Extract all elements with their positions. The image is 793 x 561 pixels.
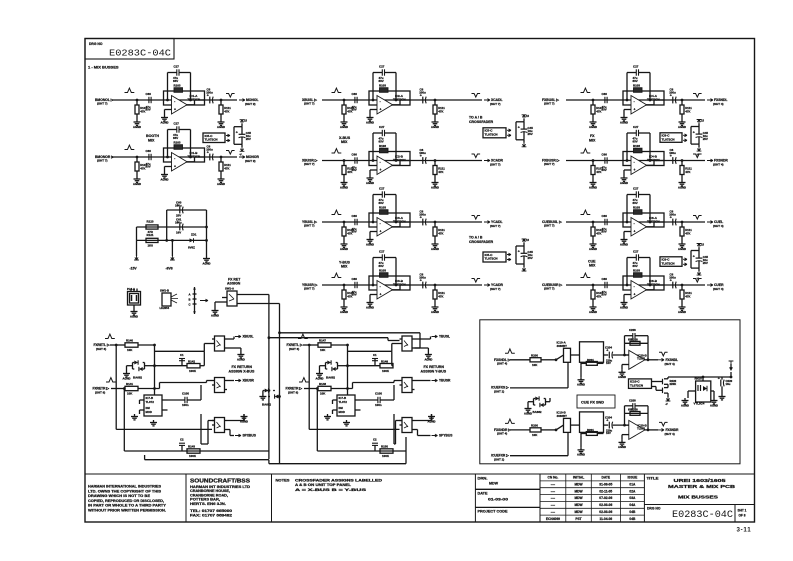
- svg-text:AGND: AGND: [577, 383, 585, 387]
- capacitor cueA Cout: [605, 345, 613, 365]
- node input FXSNDL: [494, 358, 511, 366]
- switch IC10-B: [556, 411, 571, 433]
- wire mute cap: [698, 251, 700, 269]
- wire out SPYBUS: [415, 430, 431, 436]
- wire power left drop: [136, 227, 138, 256]
- resistor R147: [318, 339, 331, 353]
- wire clamp junction: [338, 345, 349, 395]
- wire /CUEFXS: [510, 387, 568, 389]
- wire servo gnd stub: [332, 400, 334, 414]
- power -15V crossfader: [522, 264, 527, 271]
- wire bus drop A: [268, 298, 270, 460]
- svg-text:TO A / B: TO A / B: [469, 115, 483, 119]
- svg-text:C1: C1: [373, 353, 377, 357]
- svg-text:04B: 04B: [629, 517, 636, 521]
- svg-text:TL072: TL072: [637, 357, 646, 361]
- resistor R111 M1: [433, 100, 445, 120]
- svg-text:4066BT: 4066BT: [557, 414, 568, 418]
- waveform symbol M1: [332, 88, 342, 92]
- svg-text:VTL5C4: VTL5C4: [694, 402, 705, 406]
- wire crossfader bracket: [516, 122, 524, 140]
- ground L1 G3: [217, 120, 225, 129]
- resistor R111 M2: [433, 161, 445, 181]
- wire L1 main: [112, 99, 237, 101]
- capacitor C66 M1: [352, 92, 358, 112]
- svg-text:MDW: MDW: [574, 510, 583, 514]
- node TO A/B CROSSFADER: [469, 115, 494, 124]
- svg-text:BA682: BA682: [533, 410, 542, 414]
- svg-text:MDW: MDW: [574, 496, 583, 500]
- capacitor C8 M3: [419, 210, 426, 226]
- resistor R107 M1: [342, 100, 355, 120]
- svg-text:100u: 100u: [419, 91, 426, 95]
- node R3 J2: [681, 221, 684, 224]
- op-amp IC10-C: [629, 379, 652, 389]
- svg-text:47K: 47K: [685, 294, 691, 298]
- svg-text:02-03-06: 02-03-06: [599, 510, 612, 514]
- ground M1 G2: [366, 115, 374, 124]
- ground sw SW3-A: [415, 348, 433, 361]
- resistor R111 M3: [433, 222, 445, 242]
- svg-text:(SHT 6): (SHT 6): [288, 390, 298, 394]
- wire crossfader bracket: [516, 246, 524, 264]
- svg-text:AGND: AGND: [133, 125, 141, 129]
- ground R4 G1: [589, 305, 597, 314]
- ground L1 G1: [133, 120, 141, 129]
- wire mute bracket: [691, 127, 699, 145]
- svg-text:BA682: BA682: [133, 376, 142, 380]
- svg-text:(SHT 7): (SHT 7): [490, 287, 501, 291]
- wire sw3 feed: [201, 414, 215, 444]
- wire R2 +in to ground: [624, 170, 631, 176]
- svg-text:AGND: AGND: [620, 120, 628, 124]
- wire out SPXBUS: [227, 430, 234, 436]
- node R1 input label: [542, 98, 559, 106]
- wire sht box: [734, 505, 736, 523]
- svg-text:C66: C66: [352, 92, 358, 96]
- switch IC10-A: [556, 341, 571, 363]
- capacitor cueB Cfb: [625, 398, 649, 413]
- svg-text:R103: R103: [379, 205, 386, 209]
- svg-text:R103: R103: [379, 268, 386, 272]
- svg-text:AGND: AGND: [217, 182, 225, 186]
- svg-text:(SHT 7): (SHT 7): [490, 102, 501, 106]
- resistor cueB Rfb: [630, 407, 640, 415]
- wire lower rail 3: [269, 437, 406, 464]
- waveform symbol FXRETL: [105, 334, 115, 338]
- wire power mid drop: [171, 239, 174, 256]
- waveform symbol out M4: [472, 279, 481, 283]
- svg-text:CUE FX SND: CUE FX SND: [581, 401, 604, 405]
- svg-text:AGND: AGND: [589, 247, 597, 251]
- svg-text:C100: C100: [182, 392, 189, 396]
- svg-text:ISSUE: ISSUE: [628, 476, 639, 480]
- waveform symbol out M1: [472, 94, 481, 98]
- svg-text:AGND: AGND: [316, 376, 324, 380]
- capacitor low C: [179, 438, 185, 446]
- op-amp IC9-C mute driver: [660, 257, 682, 267]
- svg-text:+: +: [174, 108, 176, 112]
- wire cue rail top: [668, 377, 731, 388]
- ground R2 G3: [678, 180, 686, 189]
- svg-text:100u: 100u: [419, 276, 426, 280]
- node R1 output label: [707, 98, 727, 106]
- diode D20: [729, 361, 734, 378]
- svg-text:47K: 47K: [685, 231, 691, 235]
- svg-text:ASSIGN Y-BUS: ASSIGN Y-BUS: [421, 370, 447, 374]
- node M4 J1: [343, 284, 346, 287]
- svg-text:AGND: AGND: [240, 419, 248, 423]
- svg-text:-V: -V: [665, 402, 668, 406]
- wire title block divider: [539, 474, 541, 522]
- waveform symbol M3: [332, 210, 342, 214]
- node M4 output label: [484, 283, 504, 291]
- svg-text:C66: C66: [602, 277, 608, 281]
- svg-text:ECN4099: ECN4099: [546, 517, 560, 521]
- capacitor C27 feedback M2: [379, 125, 389, 144]
- svg-text:DRG NO: DRG NO: [89, 42, 103, 46]
- svg-text:C66: C66: [602, 214, 608, 218]
- waveform symbol R2: [581, 149, 591, 153]
- svg-text:SW1-B: SW1-B: [160, 289, 169, 293]
- svg-text:C66: C66: [352, 152, 358, 156]
- node cn table text: [546, 476, 638, 521]
- ground M1 G1: [340, 120, 348, 129]
- op-amp IC2-A M1: [369, 91, 410, 114]
- wire R3 feedback loop: [626, 195, 652, 224]
- wire M1 feedback loop: [372, 73, 398, 102]
- power +15V crossfader: [522, 114, 530, 122]
- svg-text:(SHT 7): (SHT 7): [97, 159, 108, 163]
- svg-text:C208: C208: [629, 398, 636, 402]
- svg-text:(SHT 4): (SHT 4): [665, 432, 675, 436]
- svg-text:DM: DM: [146, 406, 151, 410]
- svg-text:AGND: AGND: [431, 185, 439, 189]
- svg-text:15: 15: [244, 119, 247, 123]
- waveform symbol out R1: [693, 94, 702, 98]
- svg-text:AGND: AGND: [123, 376, 131, 380]
- node R2 output label: [707, 159, 728, 167]
- resistor cueB Rs: [581, 428, 604, 436]
- wire M3 main: [322, 221, 482, 223]
- node R4 J2: [681, 284, 684, 287]
- svg-text:A = X-BUS B = Y-BUS: A = X-BUS B = Y-BUS: [295, 488, 368, 492]
- wire clamp: [320, 366, 326, 371]
- svg-text:HARMAN INTERNATIONAL INDUSTRIE: HARMAN INTERNATIONAL INDUSTRIES: [88, 485, 162, 489]
- svg-text:C27: C27: [379, 125, 385, 129]
- svg-text:NOTES: NOTES: [276, 479, 291, 483]
- svg-text:TL072: TL072: [146, 400, 155, 404]
- wire SW1-A out lower: [237, 303, 280, 305]
- svg-text:----: ----: [551, 510, 555, 514]
- svg-text:+: +: [634, 108, 636, 112]
- svg-text:(SHT 4): (SHT 4): [713, 287, 724, 291]
- node R3 output label: [707, 220, 724, 228]
- transistor Q10: [660, 379, 669, 385]
- resistor R107 M4: [342, 285, 355, 305]
- svg-text:(SHT 4): (SHT 4): [713, 102, 724, 106]
- capacitor C66 R1: [602, 92, 608, 112]
- capacitor C66 M4: [352, 277, 358, 297]
- node title text: [647, 477, 736, 500]
- svg-text:+: +: [380, 108, 382, 112]
- svg-text:10K: 10K: [532, 433, 538, 437]
- node L1 input label: [95, 98, 114, 106]
- power +15V mute: [240, 119, 248, 127]
- capacitor C220: [718, 377, 733, 390]
- capacitor servo C: [182, 392, 189, 408]
- svg-text:63V: 63V: [352, 168, 357, 172]
- svg-text:63V: 63V: [602, 293, 607, 297]
- node R1 J1: [592, 99, 595, 102]
- ground L2 G3: [217, 177, 225, 186]
- svg-text:----: ----: [551, 483, 555, 487]
- svg-text:(SHT 4): (SHT 4): [497, 362, 507, 366]
- switch SW1-A: [215, 287, 237, 307]
- wire cn row: [540, 494, 644, 496]
- wire M2 feedback loop: [372, 133, 398, 162]
- wire crossfader cap: [523, 122, 525, 140]
- power -15V mute: [696, 268, 701, 280]
- wire left drop 2: [316, 387, 319, 451]
- wire power right drop: [205, 210, 208, 256]
- node R4 output label: [707, 283, 724, 291]
- resistor R111 M4: [433, 285, 445, 305]
- capacitor C66 L2: [146, 149, 152, 169]
- svg-text:3-11: 3-11: [737, 527, 752, 534]
- svg-text:04A: 04A: [629, 503, 636, 507]
- capacitor mid C: [372, 353, 378, 361]
- node input FXSNDR: [494, 428, 511, 436]
- resistor R111 R1: [680, 100, 692, 120]
- node input FXRETL: [287, 343, 303, 351]
- node drn block: [478, 477, 509, 514]
- svg-text:C66: C66: [602, 92, 608, 96]
- svg-text:DATE: DATE: [601, 476, 610, 480]
- waveform symbol out R2: [693, 154, 702, 158]
- resistor R141: [125, 382, 138, 396]
- svg-text:DRG NO: DRG NO: [647, 507, 661, 511]
- op-amp IC3-B M4: [369, 276, 410, 299]
- node FX RET ASSIGN label: [227, 278, 241, 286]
- svg-text:MIX: MIX: [589, 138, 596, 142]
- svg-text:OF 8: OF 8: [739, 514, 746, 518]
- wire R3 main: [566, 221, 705, 223]
- op-amp IC7 servo: [140, 395, 168, 416]
- svg-text:R103: R103: [633, 205, 640, 209]
- node R4 input label: [542, 283, 563, 291]
- node input FXRETR: [93, 387, 110, 395]
- resistor R107 R4: [591, 285, 604, 305]
- svg-text:R120: R120: [147, 220, 154, 224]
- capacitor C8 M4: [419, 273, 426, 289]
- resistor R121: [146, 233, 158, 248]
- svg-text:ASSIGN X-BUS: ASSIGN X-BUS: [229, 370, 255, 374]
- wire cueB gnd drop: [580, 435, 582, 447]
- svg-text:R150: R150: [381, 445, 388, 449]
- wire cueA box out: [604, 354, 609, 356]
- svg-text:ZD1: ZD1: [191, 233, 197, 237]
- ground R4 G3: [678, 305, 686, 314]
- capacitor C27 feedback L2: [173, 122, 183, 141]
- capacitor C66 R3: [602, 214, 608, 234]
- wire cn col: [590, 474, 592, 522]
- capacitor servo C: [375, 392, 382, 408]
- wire clamp: [127, 366, 133, 371]
- wire low cap: [374, 445, 376, 451]
- node out XBUSL: [235, 335, 254, 339]
- svg-text:YBUSL: YBUSL: [439, 335, 450, 339]
- wire low rail: [124, 450, 269, 452]
- svg-text:YBUSR: YBUSR: [439, 379, 451, 383]
- svg-text:SPYBUS: SPYBUS: [439, 434, 453, 438]
- svg-text:4066BT: 4066BT: [557, 344, 568, 348]
- svg-text:+: +: [634, 293, 636, 297]
- wire left drop 2: [123, 387, 126, 451]
- node out SPYBUS: [432, 434, 454, 438]
- svg-text:+: +: [518, 126, 520, 130]
- wire cn row: [540, 480, 644, 482]
- svg-text:1K0: 1K0: [148, 244, 154, 248]
- svg-text:TL072: TL072: [637, 427, 646, 431]
- svg-text:+: +: [718, 377, 720, 381]
- node FX MIX label: [589, 134, 596, 142]
- node drg no bottom: [647, 507, 733, 522]
- svg-text:C204: C204: [605, 415, 612, 419]
- svg-text:AGND: AGND: [589, 125, 597, 129]
- wire crossfader arrows: [507, 253, 511, 261]
- op-amp IC6-A R3: [623, 213, 664, 236]
- svg-text:C100: C100: [375, 392, 382, 396]
- svg-text:AGND: AGND: [340, 310, 348, 314]
- svg-text:CROSSFADER: CROSSFADER: [469, 120, 494, 124]
- node out XBUSR: [235, 379, 255, 383]
- ground R3 G3: [678, 242, 686, 251]
- waveform symbol out L2: [226, 151, 235, 155]
- svg-text:SHT 1: SHT 1: [738, 509, 747, 513]
- wire crossfader cap: [523, 246, 525, 264]
- svg-text:(SHT 6): (SHT 6): [289, 347, 299, 351]
- ground R1 G1: [589, 120, 597, 129]
- svg-text:10V: 10V: [606, 361, 611, 365]
- waveform out cueA: [659, 352, 668, 356]
- node input /CUEFXS: [491, 386, 509, 394]
- capacitor C66 R4: [602, 277, 608, 297]
- svg-text:63V: 63V: [602, 108, 607, 112]
- svg-text:R142: R142: [188, 359, 195, 363]
- resistor R103 feedback M3: [379, 205, 388, 214]
- svg-text:C27: C27: [174, 122, 180, 126]
- wire mute bracket: [691, 251, 699, 269]
- svg-text:MIX: MIX: [148, 138, 155, 142]
- capacitor crossfader C: [518, 250, 533, 260]
- wire left drop 1: [308, 344, 400, 430]
- svg-text:C: C: [189, 302, 191, 306]
- wire cueA +in gnd: [622, 365, 629, 370]
- svg-text:RN10: RN10: [695, 377, 703, 381]
- resistor R149 mid: [380, 359, 393, 373]
- wire M3 +in to ground: [370, 232, 377, 238]
- resistor R103 feedback R4: [633, 268, 642, 277]
- ground servo: [131, 414, 138, 420]
- ground opto a: [681, 398, 689, 407]
- node M3 J2: [434, 221, 437, 224]
- diode pair BA682 clamp: [133, 360, 145, 379]
- node M2 output label: [484, 159, 504, 167]
- capacitor cueA Cfb: [625, 328, 649, 343]
- svg-text:100u: 100u: [669, 151, 676, 155]
- resistor R107 L2: [135, 157, 148, 177]
- wire title divider: [644, 504, 754, 506]
- svg-text:100K: 100K: [382, 454, 390, 458]
- resistor R103 feedback R3: [633, 205, 642, 214]
- diode D31 bus: [268, 394, 280, 398]
- node out YBUSL: [432, 335, 451, 339]
- node section title: [229, 365, 255, 374]
- capacitor C27 feedback M1: [379, 65, 389, 84]
- wire FXRETL in: [303, 344, 318, 346]
- svg-text:ASSIGN: ASSIGN: [227, 282, 241, 286]
- node R2 J1: [592, 159, 595, 162]
- node R3 input label: [542, 220, 562, 228]
- wire out YBUSR: [415, 380, 431, 382]
- ground M3 G3: [431, 242, 439, 251]
- svg-text:10K: 10K: [127, 348, 133, 352]
- resistor R107 M2: [342, 161, 355, 181]
- svg-text:CN No.: CN No.: [547, 476, 558, 480]
- svg-text:100n: 100n: [375, 403, 382, 407]
- svg-text:63V: 63V: [352, 293, 357, 297]
- resistor cueA Rs: [581, 358, 604, 366]
- svg-text:+: +: [693, 131, 695, 135]
- wire long bus A: [268, 336, 400, 340]
- node M2 J1: [343, 159, 346, 162]
- svg-text:16V: 16V: [176, 231, 181, 235]
- wire R1 +in to ground: [624, 110, 631, 116]
- svg-text:AGND: AGND: [340, 247, 348, 251]
- svg-text:TL072CN: TL072CN: [205, 138, 218, 142]
- svg-text:10V: 10V: [606, 431, 611, 435]
- svg-text:R200: R200: [531, 424, 538, 428]
- svg-text:AGND: AGND: [340, 125, 348, 129]
- svg-text:15: 15: [701, 119, 704, 123]
- svg-text:AGND: AGND: [130, 314, 138, 318]
- svg-text:R103: R103: [379, 144, 386, 148]
- wire L2 feedback loop: [166, 130, 192, 159]
- svg-text:63V: 63V: [628, 408, 633, 412]
- op-amp IC5-C mute driver: [203, 133, 225, 143]
- svg-text:XBUSL: XBUSL: [243, 335, 254, 339]
- svg-text:(SHT 7): (SHT 7): [544, 224, 555, 228]
- svg-text:(SHT 7): (SHT 7): [97, 102, 108, 106]
- svg-text:(SHT 2): (SHT 2): [494, 457, 504, 461]
- capacitor C66 L1: [146, 92, 152, 112]
- wire option arrow: [200, 299, 208, 302]
- svg-text:R204: R204: [587, 358, 594, 362]
- svg-text:AGND: AGND: [366, 120, 374, 124]
- switch SW2-B: [212, 378, 227, 393]
- ground cueB sw: [577, 447, 585, 456]
- svg-text:15: 15: [526, 238, 529, 242]
- svg-text:R103: R103: [633, 83, 640, 87]
- node CUE FX SND frame: [480, 320, 740, 464]
- ground cueA: [618, 370, 626, 379]
- wire power low rail: [137, 239, 207, 241]
- wire out YBUSL: [415, 337, 431, 340]
- waveform symbol M2: [332, 149, 342, 153]
- svg-text:----: ----: [551, 503, 555, 507]
- svg-text:10K: 10K: [532, 363, 538, 367]
